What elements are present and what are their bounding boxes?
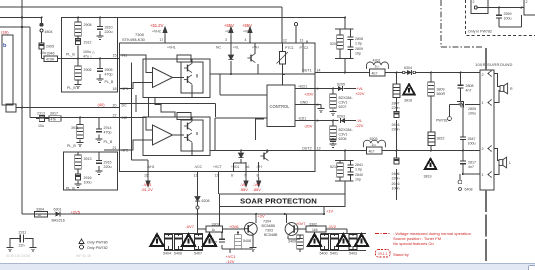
svg-text:15: 15 bbox=[113, 54, 117, 58]
svg-text:C3V1: C3V1 bbox=[339, 101, 348, 105]
svg-text:5407: 5407 bbox=[194, 252, 202, 256]
svg-text:2905: 2905 bbox=[105, 68, 113, 72]
svg-text:SOAR PROTECTION: SOAR PROTECTION bbox=[240, 197, 317, 206]
svg-text:Stand by: Stand by bbox=[393, 252, 409, 257]
svg-text:8: 8 bbox=[317, 103, 319, 107]
svg-text:PL_B: PL_B bbox=[104, 140, 113, 144]
svg-text:DC: DC bbox=[122, 104, 128, 108]
svg-text:560R: 560R bbox=[437, 92, 446, 96]
svg-text:2559: 2559 bbox=[504, 12, 512, 16]
svg-text:+VL: +VL bbox=[225, 30, 231, 34]
svg-text:16: 16 bbox=[144, 174, 148, 178]
svg-text:NF2: NF2 bbox=[122, 149, 129, 153]
svg-text:7304: 7304 bbox=[263, 220, 271, 224]
svg-text:Only PW782: Only PW782 bbox=[87, 246, 108, 250]
svg-text:WF 40 36: WF 40 36 bbox=[76, 254, 91, 258]
svg-text:BZX284-: BZX284- bbox=[339, 128, 354, 132]
svg-text:+VH1: +VH1 bbox=[167, 46, 176, 50]
svg-text:NF1: NF1 bbox=[122, 87, 129, 91]
svg-text:3139 118 20035: 3139 118 20035 bbox=[6, 254, 30, 258]
svg-text:100u: 100u bbox=[504, 17, 512, 21]
svg-text:6304: 6304 bbox=[404, 66, 412, 70]
svg-text:STK498-K30: STK498-K30 bbox=[122, 37, 146, 42]
svg-text:1.0p: 1.0p bbox=[355, 168, 362, 172]
svg-text:PL_B: PL_B bbox=[66, 53, 75, 57]
svg-text:BC548B: BC548B bbox=[262, 224, 276, 228]
svg-text:3809: 3809 bbox=[437, 88, 445, 92]
svg-text:-55V: -55V bbox=[253, 187, 262, 192]
svg-text:4E7: 4E7 bbox=[372, 72, 378, 76]
svg-text:2: 2 bbox=[526, 0, 528, 4]
svg-text:6208: 6208 bbox=[202, 199, 210, 203]
svg-text:470p: 470p bbox=[105, 73, 113, 77]
svg-text:10p: 10p bbox=[355, 178, 361, 182]
svg-text:100u: 100u bbox=[468, 142, 476, 146]
svg-text:100n: 100n bbox=[392, 187, 400, 191]
svg-text:PW782: PW782 bbox=[436, 119, 448, 123]
svg-text:-22V: -22V bbox=[355, 123, 364, 128]
svg-text:5401: 5401 bbox=[330, 252, 338, 256]
svg-text:+22V: +22V bbox=[355, 91, 365, 96]
svg-text:11: 11 bbox=[194, 174, 198, 178]
svg-text:+55V: +55V bbox=[242, 23, 252, 28]
svg-text:BAS216: BAS216 bbox=[52, 219, 65, 223]
svg-text:10u: 10u bbox=[38, 124, 44, 128]
svg-text:+0V6: +0V6 bbox=[229, 224, 239, 229]
svg-text:(40): (40) bbox=[98, 102, 106, 107]
svg-text:2915: 2915 bbox=[104, 161, 112, 165]
svg-text:2847: 2847 bbox=[468, 137, 476, 141]
svg-text:(1B): (1B) bbox=[1, 30, 9, 35]
svg-text:Only in PW782: Only in PW782 bbox=[468, 30, 492, 34]
svg-text:-55V: -55V bbox=[240, 187, 249, 192]
svg-text:CONTROL: CONTROL bbox=[270, 104, 291, 109]
svg-text:+0V7: +0V7 bbox=[296, 221, 306, 226]
svg-text:No special features On: No special features On bbox=[393, 241, 434, 246]
svg-text:5408: 5408 bbox=[243, 239, 251, 243]
svg-text:3304: 3304 bbox=[36, 207, 44, 211]
svg-text:5406: 5406 bbox=[174, 252, 182, 256]
svg-text:+VH: +VH bbox=[252, 46, 259, 50]
svg-text:7303: 7303 bbox=[265, 229, 273, 233]
svg-text:4804: 4804 bbox=[45, 30, 53, 34]
svg-text:+VH: +VH bbox=[243, 30, 250, 34]
svg-text:7: 7 bbox=[244, 174, 246, 178]
svg-text:19.1.1: 19.1.1 bbox=[378, 252, 388, 256]
svg-text:2912: 2912 bbox=[84, 41, 92, 45]
svg-text:3917: 3917 bbox=[50, 112, 58, 116]
svg-text:PL_B: PL_B bbox=[105, 80, 114, 84]
svg-text:3409: 3409 bbox=[288, 240, 296, 244]
svg-text:20: 20 bbox=[113, 104, 117, 108]
svg-text:-20V: -20V bbox=[304, 123, 313, 128]
svg-text:IN2: IN2 bbox=[122, 116, 128, 120]
svg-text:2840: 2840 bbox=[355, 173, 363, 177]
svg-text:100R SURROUND: 100R SURROUND bbox=[475, 62, 513, 67]
svg-text:4: 4 bbox=[245, 38, 247, 42]
svg-text:3822: 3822 bbox=[437, 137, 445, 141]
svg-text:-VH1: -VH1 bbox=[147, 165, 155, 169]
svg-text:NC: NC bbox=[216, 46, 221, 50]
svg-text:PTC1: PTC1 bbox=[285, 46, 294, 50]
svg-text:22: 22 bbox=[113, 114, 117, 118]
svg-text:+2V: +2V bbox=[258, 214, 266, 219]
svg-text:5: 5 bbox=[317, 119, 319, 123]
svg-text:PL_B: PL_B bbox=[67, 86, 76, 90]
svg-text:3818: 3818 bbox=[404, 99, 412, 103]
svg-text:3911: 3911 bbox=[71, 126, 79, 130]
svg-text:2916: 2916 bbox=[84, 176, 92, 180]
svg-text:6206: 6206 bbox=[339, 137, 347, 141]
svg-text:PL_B: PL_B bbox=[67, 144, 76, 148]
svg-text:100u: 100u bbox=[84, 181, 92, 185]
svg-text:PTC2: PTC2 bbox=[300, 46, 309, 50]
svg-text:+2V5: +2V5 bbox=[71, 209, 81, 214]
svg-text:+VHC: +VHC bbox=[152, 30, 162, 34]
svg-text:R: R bbox=[510, 87, 513, 91]
svg-text:2: 2 bbox=[482, 147, 484, 151]
svg-text:4n7: 4n7 bbox=[468, 165, 474, 169]
svg-text:1k5: 1k5 bbox=[312, 228, 318, 232]
svg-text:2817: 2817 bbox=[468, 161, 476, 165]
svg-text:GND: GND bbox=[300, 100, 308, 104]
svg-text:2914: 2914 bbox=[104, 126, 112, 130]
svg-text:b: b bbox=[3, 43, 7, 49]
svg-text:+55V: +55V bbox=[224, 23, 234, 28]
svg-text:+ED1: +ED1 bbox=[298, 84, 307, 88]
svg-text:4E7: 4E7 bbox=[369, 150, 375, 154]
svg-text:4201: 4201 bbox=[373, 59, 381, 63]
svg-text:2616: 2616 bbox=[392, 182, 400, 186]
svg-text:10p: 10p bbox=[355, 52, 361, 56]
svg-text:21: 21 bbox=[113, 146, 117, 150]
svg-text:2: 2 bbox=[473, 0, 475, 4]
svg-text:2810: 2810 bbox=[105, 26, 113, 30]
svg-text:PL_B: PL_B bbox=[66, 187, 75, 191]
svg-text:1: 1 bbox=[482, 101, 484, 105]
svg-text:3946: 3946 bbox=[47, 52, 55, 56]
svg-text:2808: 2808 bbox=[466, 84, 474, 88]
svg-text:2406: 2406 bbox=[392, 172, 400, 176]
svg-text:2809: 2809 bbox=[355, 47, 363, 51]
svg-text:470p: 470p bbox=[104, 131, 112, 135]
svg-text:6205: 6205 bbox=[337, 83, 345, 87]
svg-text:Only PW780: Only PW780 bbox=[87, 241, 108, 245]
svg-text:6301: 6301 bbox=[54, 207, 62, 211]
svg-text:470R: 470R bbox=[46, 57, 55, 61]
svg-text:12: 12 bbox=[215, 174, 219, 178]
svg-text:6408: 6408 bbox=[465, 188, 473, 192]
svg-text:+20V: +20V bbox=[304, 91, 314, 96]
svg-text:220n: 220n bbox=[392, 177, 400, 181]
svg-text:BC548B: BC548B bbox=[264, 233, 278, 237]
svg-text:220n: 220n bbox=[392, 128, 400, 132]
svg-text:BZX284-: BZX284- bbox=[339, 96, 354, 100]
svg-text:100u △: 100u △ bbox=[83, 50, 96, 54]
svg-text:-VL: -VL bbox=[245, 165, 250, 169]
svg-text:-1V2: -1V2 bbox=[328, 224, 337, 229]
svg-text:13: 13 bbox=[300, 39, 304, 43]
svg-text:+1V: +1V bbox=[326, 209, 334, 214]
svg-text:2906: 2906 bbox=[84, 68, 92, 72]
svg-text:12: 12 bbox=[283, 39, 287, 43]
svg-text:5202: 5202 bbox=[330, 42, 338, 46]
svg-text:17: 17 bbox=[160, 38, 164, 42]
svg-text:220n: 220n bbox=[392, 106, 400, 110]
svg-text:-0V7: -0V7 bbox=[186, 224, 195, 229]
svg-text:2: 2 bbox=[482, 73, 484, 77]
svg-text:-51.2V: -51.2V bbox=[141, 187, 153, 192]
svg-text:OUT1: OUT1 bbox=[302, 69, 312, 73]
svg-text:8: 8 bbox=[257, 174, 259, 178]
svg-text:+VCT: +VCT bbox=[213, 165, 222, 169]
svg-text:2908: 2908 bbox=[84, 23, 92, 27]
svg-text:3303: 3303 bbox=[212, 222, 220, 226]
svg-text:C3V1: C3V1 bbox=[339, 133, 348, 137]
svg-text:2313: 2313 bbox=[37, 112, 45, 116]
svg-text:5404: 5404 bbox=[163, 252, 171, 256]
svg-text:+51.2V: +51.2V bbox=[150, 23, 164, 28]
svg-text:1k: 1k bbox=[212, 228, 216, 232]
svg-text:6203: 6203 bbox=[337, 115, 345, 119]
svg-text:2816: 2816 bbox=[392, 123, 400, 127]
svg-text:5203: 5203 bbox=[370, 137, 378, 141]
svg-text:L: L bbox=[509, 161, 511, 165]
svg-text:2808: 2808 bbox=[355, 37, 363, 41]
svg-text:OUT2: OUT2 bbox=[302, 147, 312, 151]
svg-text:6207: 6207 bbox=[339, 105, 347, 109]
svg-text:3819: 3819 bbox=[424, 175, 432, 179]
svg-text:2311: 2311 bbox=[19, 231, 27, 235]
svg-text:4n7: 4n7 bbox=[466, 89, 472, 93]
svg-text:18: 18 bbox=[113, 87, 117, 91]
svg-text:2905: 2905 bbox=[46, 45, 54, 49]
svg-text:5403: 5403 bbox=[349, 252, 357, 256]
svg-text:2807: 2807 bbox=[392, 102, 400, 106]
svg-text:-VCC: -VCC bbox=[194, 165, 203, 169]
svg-text:3: 3 bbox=[225, 38, 227, 42]
svg-text:+VD1: +VD1 bbox=[231, 165, 240, 169]
svg-text:220u: 220u bbox=[105, 30, 113, 34]
svg-text:-VH: -VH bbox=[256, 165, 262, 169]
svg-text:1.0p: 1.0p bbox=[355, 42, 362, 46]
svg-text:100u: 100u bbox=[468, 112, 476, 116]
svg-text:220u: 220u bbox=[104, 165, 112, 169]
svg-text:47k: 47k bbox=[51, 117, 57, 121]
svg-text:100n: 100n bbox=[209, 240, 217, 244]
svg-text:2805: 2805 bbox=[468, 107, 476, 111]
svg-text:3302: 3302 bbox=[309, 222, 317, 226]
svg-text:-ED1: -ED1 bbox=[298, 116, 306, 120]
svg-text:10u: 10u bbox=[40, 51, 46, 55]
svg-text:6: 6 bbox=[231, 174, 233, 178]
svg-text:IN1: IN1 bbox=[122, 54, 128, 58]
svg-text:1: 1 bbox=[482, 173, 484, 177]
svg-text:47u ○: 47u ○ bbox=[83, 55, 92, 59]
svg-text:1u: 1u bbox=[375, 65, 379, 69]
svg-text:9: 9 bbox=[317, 87, 319, 91]
svg-text:+VL: +VL bbox=[233, 46, 239, 50]
svg-text:1k: 1k bbox=[38, 213, 42, 217]
svg-text:5214: 5214 bbox=[330, 165, 338, 169]
svg-text:5400: 5400 bbox=[320, 252, 328, 256]
svg-text:3913: 3913 bbox=[84, 157, 92, 161]
svg-text:22n: 22n bbox=[19, 244, 25, 248]
svg-text:2841: 2841 bbox=[355, 163, 363, 167]
svg-text:1u: 1u bbox=[372, 143, 376, 147]
